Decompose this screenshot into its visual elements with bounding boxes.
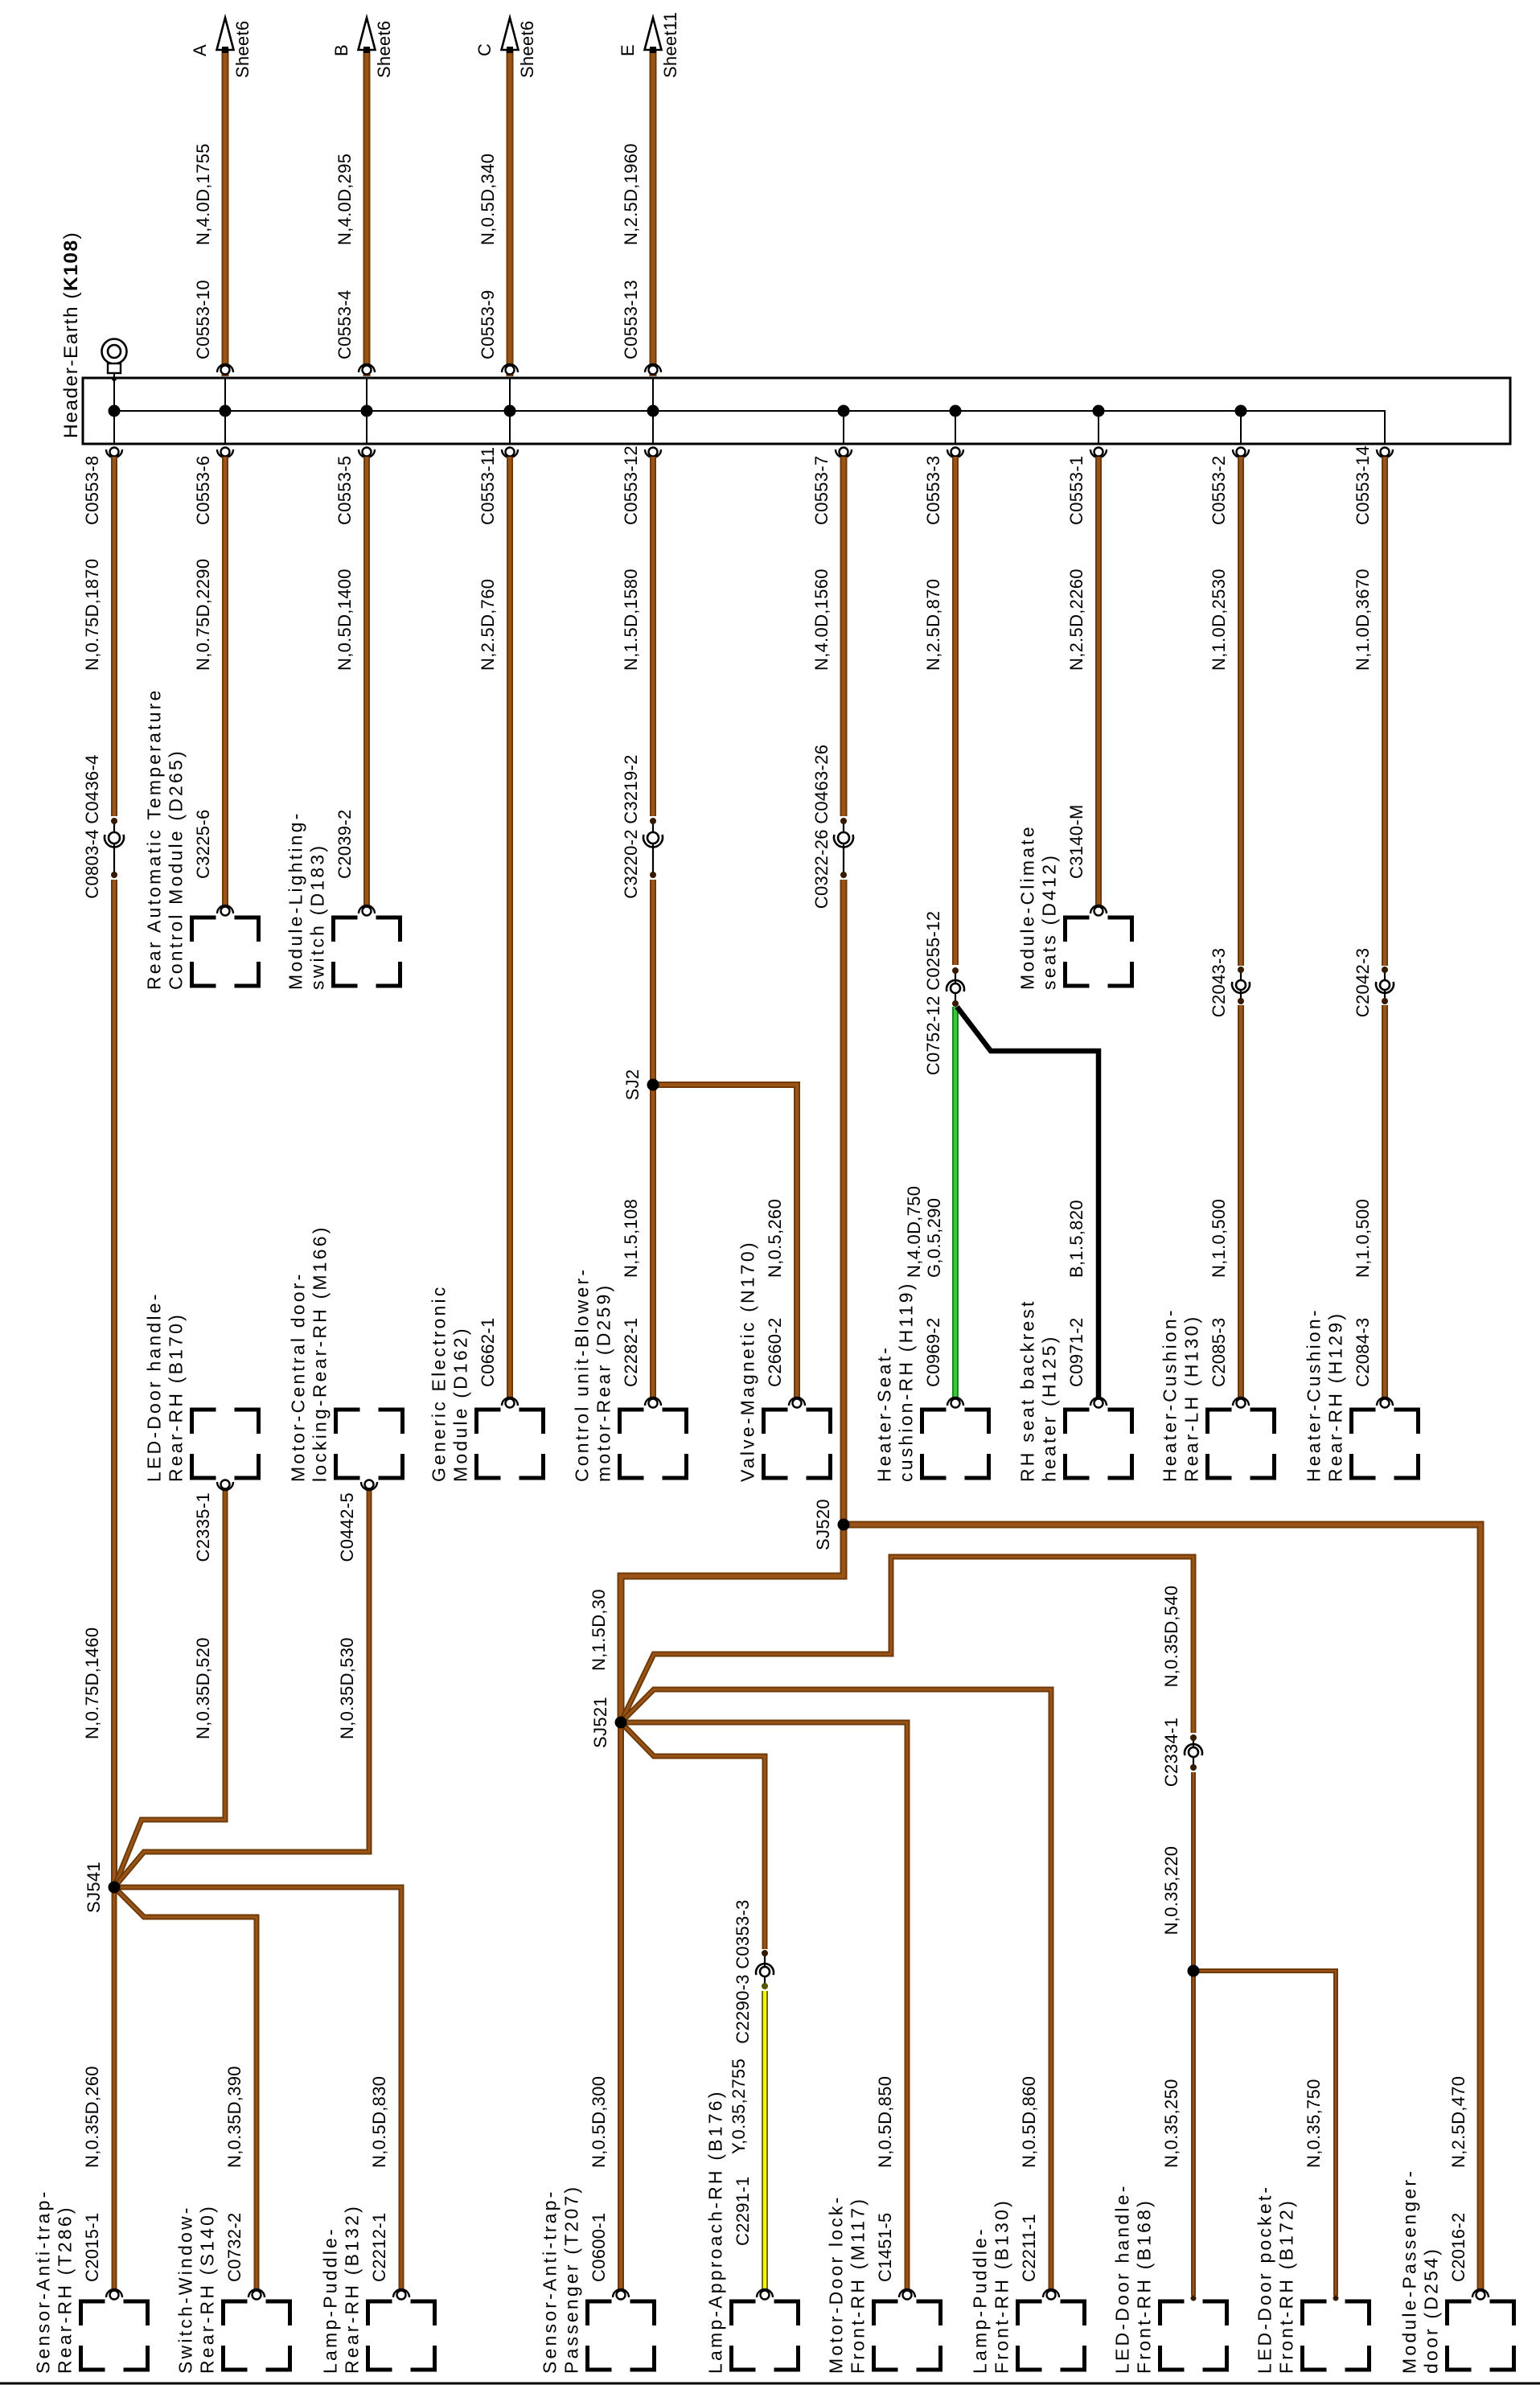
wire C0553-13 to off-sheet E bbox=[650, 50, 657, 376]
wire N,0.35D,520 SJ541 to B170 bbox=[114, 1489, 225, 1887]
svg-text:Y,0.35,2755: Y,0.35,2755 bbox=[729, 2059, 749, 2154]
wire N,0.35D,260 SJ541 to T286 bbox=[112, 1887, 117, 2291]
wire N,1.0,500 to H129 bbox=[1382, 1005, 1388, 1400]
connector C0662-1 bbox=[502, 1398, 518, 1408]
svg-text:C2043-3: C2043-3 bbox=[1209, 948, 1229, 1018]
component box D162 Generic Electronic Module bbox=[477, 1410, 544, 1478]
svg-text:C2015-1: C2015-1 bbox=[82, 2213, 102, 2283]
svg-text:E: E bbox=[618, 44, 638, 56]
svg-text:N,0.35D,260: N,0.35D,260 bbox=[82, 2066, 102, 2168]
connector C0553-2 at bus bottom bbox=[1233, 448, 1249, 458]
wire N,1.5,108 SJ2 to D259 bbox=[650, 1085, 656, 1400]
svg-text:C2282-1: C2282-1 bbox=[621, 1318, 641, 1388]
title D259 Control unit-Blower-motor-Rear bbox=[572, 1267, 614, 1482]
connector C2084-3 bbox=[1377, 1398, 1393, 1408]
svg-text:Rear Automatic Temperature: Rear Automatic Temperature bbox=[144, 688, 165, 990]
wire end dot at B172 bbox=[1333, 2296, 1339, 2301]
svg-text:C2660-2: C2660-2 bbox=[765, 1318, 785, 1388]
svg-text:N,1.5D,1580: N,1.5D,1580 bbox=[621, 569, 641, 671]
sheet border bottom bbox=[0, 2383, 1540, 2385]
svg-text:C2290-3 C0353-3: C2290-3 C0353-3 bbox=[733, 1899, 753, 2043]
connector C0553-6 at bus bottom bbox=[217, 448, 233, 458]
svg-text:N,0.5D,1400: N,0.5D,1400 bbox=[335, 569, 355, 671]
title T207 Sensor-Anti-trap-Passenger bbox=[540, 2185, 582, 2374]
wire N,0.75D,1460 segment to SJ541 bbox=[111, 880, 117, 1887]
component box T207 Sensor-Anti-trap-Passenger bbox=[588, 2301, 655, 2370]
svg-text:C0553-14: C0553-14 bbox=[1353, 445, 1373, 525]
svg-text:C0752-12 C0255-12: C0752-12 C0255-12 bbox=[923, 911, 943, 1075]
wire N,0.5D,830 SJ541 to B132 bbox=[114, 1887, 401, 2291]
svg-text:C0969-2: C0969-2 bbox=[923, 1318, 943, 1388]
component box D183 Module-Lighting-switch bbox=[334, 917, 400, 986]
title D254 Module-Passenger-door bbox=[1399, 2169, 1442, 2374]
component box M117 Motor-Door lock-Front-RH bbox=[874, 2301, 941, 2370]
svg-text:C3225-6: C3225-6 bbox=[193, 810, 213, 880]
svg-text:N,1.5D,30: N,1.5D,30 bbox=[589, 1589, 609, 1671]
svg-text:C0322-26 C0463-26: C0322-26 C0463-26 bbox=[811, 745, 832, 909]
inline connector C0752-12 C0255-12 bbox=[947, 967, 964, 1007]
svg-text:N,0.5D,340: N,0.5D,340 bbox=[478, 154, 498, 245]
wire C0553-2 upper segment bbox=[1238, 457, 1244, 966]
svg-text:N,2.5D,1960: N,2.5D,1960 bbox=[621, 143, 641, 245]
component box B130 Lamp-Puddle-Front-RH bbox=[1018, 2301, 1085, 2370]
svg-text:N,0.35D,540: N,0.35D,540 bbox=[1161, 1586, 1181, 1688]
svg-text:N,0.35,250: N,0.35,250 bbox=[1161, 2079, 1181, 2168]
svg-text:Lamp-Puddle-: Lamp-Puddle- bbox=[970, 2227, 991, 2374]
component box S140 Switch-Window-Rear-RH bbox=[224, 2301, 290, 2370]
svg-text:C2211-1: C2211-1 bbox=[1019, 2214, 1039, 2282]
svg-text:N,4.0D,1560: N,4.0D,1560 bbox=[811, 569, 832, 671]
svg-text:G,0.5,290: G,0.5,290 bbox=[924, 1198, 944, 1278]
svg-text:N,4.0D,1755: N,4.0D,1755 bbox=[193, 143, 213, 245]
junction SJ541 bbox=[109, 1882, 121, 1894]
connector C0553-5 at bus bottom bbox=[359, 448, 375, 458]
component box D412 Module-Climate seats bbox=[1066, 917, 1132, 986]
connector C2291-1 bbox=[757, 2289, 773, 2300]
svg-text:C3220-2 C3219-2: C3220-2 C3219-2 bbox=[621, 754, 641, 898]
inline connector C3220-2 C3219-2 bbox=[643, 818, 663, 878]
svg-text:Module-Climate: Module-Climate bbox=[1017, 824, 1038, 990]
svg-text:A: A bbox=[190, 44, 210, 56]
ground symbol on Header-Earth bbox=[102, 339, 127, 382]
connector C1451-5 bbox=[899, 2289, 915, 2300]
svg-text:Sensor-Anti-trap-: Sensor-Anti-trap- bbox=[33, 2189, 54, 2374]
connector C0969-2 bbox=[947, 1398, 963, 1408]
svg-text:LED-Door handle-: LED-Door handle- bbox=[144, 1291, 165, 1482]
svg-text:cushion-RH (H119): cushion-RH (H119) bbox=[896, 1281, 917, 1482]
svg-text:N,1.0D,3670: N,1.0D,3670 bbox=[1353, 569, 1373, 671]
connector C2335-1 bbox=[217, 1480, 233, 1491]
inline connector C0803-4 C0436-4 bbox=[105, 818, 124, 878]
connector C0553-13 at bus top bbox=[645, 364, 661, 375]
title B130 Lamp-Puddle-Front-RH bbox=[970, 2198, 1012, 2374]
svg-text:Rear-RH (S140): Rear-RH (S140) bbox=[197, 2204, 218, 2374]
wire end dot at B168 bbox=[1191, 2296, 1197, 2301]
svg-text:N,0.5D,830: N,0.5D,830 bbox=[369, 2076, 389, 2168]
wire N,0.35,220 C2334-1 to junction bbox=[1191, 1772, 1196, 1971]
svg-text:SJ520: SJ520 bbox=[813, 1499, 833, 1550]
connector C0442-5 bbox=[361, 1480, 377, 1491]
connector C0553-8 at bus bottom bbox=[106, 448, 122, 458]
svg-text:C0971-2: C0971-2 bbox=[1066, 1318, 1086, 1388]
title S140 Switch-Window-Rear-RH bbox=[175, 2204, 218, 2374]
wire C0553-12 upper segment bbox=[650, 457, 656, 816]
svg-text:C0553-4: C0553-4 bbox=[335, 290, 355, 360]
bus junction dots bbox=[109, 405, 1247, 417]
svg-text:N,0.5,260: N,0.5,260 bbox=[765, 1199, 785, 1278]
wire C0553-7 upper segment bbox=[840, 457, 848, 816]
svg-text:N,2.5D,760: N,2.5D,760 bbox=[478, 579, 498, 671]
wire N,0.5,260 SJ2 to N170 bbox=[653, 1085, 797, 1400]
svg-text:Rear-RH (H129): Rear-RH (H129) bbox=[1325, 1311, 1346, 1482]
svg-text:C1451-5: C1451-5 bbox=[875, 2213, 895, 2283]
connector C0553-14 at bus bottom bbox=[1377, 448, 1393, 458]
wire N,2.5D,470 SJ520 to D254 bbox=[844, 1525, 1480, 2291]
svg-text:C2334-1: C2334-1 bbox=[1161, 1718, 1181, 1788]
svg-text:C2016-2: C2016-2 bbox=[1448, 2213, 1468, 2283]
svg-text:C2042-3: C2042-3 bbox=[1353, 948, 1373, 1018]
component box D254 Module-Passenger-door bbox=[1448, 2301, 1514, 2370]
svg-text:N,0.35D,390: N,0.35D,390 bbox=[224, 2066, 244, 2168]
svg-text:N,1.5,108: N,1.5,108 bbox=[621, 1199, 641, 1278]
svg-text:C0553-9: C0553-9 bbox=[478, 290, 498, 360]
svg-text:Sheet6: Sheet6 bbox=[232, 20, 253, 78]
wire N,0.5D,300 SJ521 to T207 bbox=[618, 1722, 624, 2291]
title M166 Motor-Central door-locking-Rear-RH bbox=[288, 1225, 331, 1482]
component box D259 Control unit-Blower-motor-Rear bbox=[620, 1410, 687, 1478]
component box M166 Motor-Central door-locking-Rear-RH bbox=[336, 1410, 403, 1478]
title D265 Rear Automatic Temperature Control Module bbox=[144, 688, 187, 990]
wire C0553-12 lower segment to SJ2 bbox=[650, 880, 656, 1085]
svg-text:C0553-6: C0553-6 bbox=[193, 456, 213, 526]
title T286 Sensor-Anti-trap-Rear-RH bbox=[33, 2189, 76, 2374]
component box B132 Lamp-Puddle-Rear-RH bbox=[368, 2301, 435, 2370]
bus stub connections bbox=[114, 378, 1385, 444]
component box H129 Heater-Cushion-Rear-RH bbox=[1352, 1410, 1419, 1478]
svg-text:C2039-2: C2039-2 bbox=[335, 810, 355, 880]
svg-text:Front-RH (B130): Front-RH (B130) bbox=[992, 2198, 1012, 2374]
svg-text:N,0.35D,520: N,0.35D,520 bbox=[193, 1637, 213, 1739]
svg-text:N,0.75D,1460: N,0.75D,1460 bbox=[82, 1628, 102, 1739]
svg-text:seats (D412): seats (D412) bbox=[1039, 853, 1060, 990]
wire N,0.35D,540 SJ521 to C2334-1 bbox=[621, 1557, 1193, 1733]
wire N,1.5D,30 SJ520 to SJ521 bbox=[621, 1525, 844, 1722]
component box N170 Valve-Magnetic bbox=[764, 1410, 831, 1478]
svg-text:C0553-2: C0553-2 bbox=[1209, 456, 1229, 526]
connector C2660-2 bbox=[789, 1398, 805, 1408]
svg-text:N,4.0D,750: N,4.0D,750 bbox=[904, 1186, 924, 1278]
title B168 LED-Door handle-Front-RH bbox=[1112, 2183, 1155, 2374]
svg-text:N,0.35,750: N,0.35,750 bbox=[1304, 2079, 1324, 2168]
title M117 Motor-Door lock-Front-RH bbox=[826, 2195, 869, 2374]
wire C0553-1 to D412 bbox=[1095, 457, 1102, 907]
svg-text:N,0.5D,300: N,0.5D,300 bbox=[589, 2076, 609, 2168]
title N170 Valve-Magnetic bbox=[737, 1240, 758, 1482]
connector C2039-2 bbox=[359, 905, 375, 916]
svg-text:N,2.5D,2260: N,2.5D,2260 bbox=[1066, 569, 1086, 671]
svg-text:C0553-11: C0553-11 bbox=[478, 447, 498, 525]
title B170 LED-Door handle-Rear-RH bbox=[144, 1291, 187, 1482]
inline connector C0322-26 C0463-26 bbox=[834, 818, 853, 878]
junction SJ521 bbox=[615, 1717, 627, 1729]
component box B172 LED-Door pocket-Front-RH bbox=[1303, 2301, 1370, 2370]
svg-text:Heater-Seat-: Heater-Seat- bbox=[874, 1345, 895, 1482]
svg-text:switch (D183): switch (D183) bbox=[307, 844, 328, 990]
svg-text:C0553-5: C0553-5 bbox=[335, 456, 355, 526]
svg-text:C2084-3: C2084-3 bbox=[1353, 1318, 1373, 1388]
connector C0553-4 at bus top bbox=[359, 364, 375, 375]
junction SJ2 bbox=[647, 1079, 659, 1091]
connector C0553-10 at bus top bbox=[217, 364, 233, 375]
connector C2085-3 bbox=[1233, 1398, 1249, 1408]
svg-text:N,0.5D,860: N,0.5D,860 bbox=[1019, 2076, 1039, 2168]
off-sheet arrow C Sheet6 bbox=[474, 18, 537, 78]
title H119 Heater-Seat-cushion-RH bbox=[874, 1281, 917, 1482]
svg-text:C2212-1: C2212-1 bbox=[369, 2213, 389, 2283]
svg-text:Module-Passenger-: Module-Passenger- bbox=[1399, 2169, 1420, 2374]
wire C0553-7 lower segment to SJ520 bbox=[840, 880, 848, 1525]
title H129 Heater-Cushion-Rear-RH bbox=[1304, 1307, 1346, 1482]
wire C0553-3 to connector C0752-12 bbox=[952, 457, 959, 965]
svg-text:Module-Lighting-: Module-Lighting- bbox=[285, 811, 306, 990]
svg-text:Motor-Door lock-: Motor-Door lock- bbox=[826, 2195, 847, 2374]
svg-text:Front-RH (B168): Front-RH (B168) bbox=[1134, 2198, 1155, 2374]
inline connector C2290-3 C0353-3 bbox=[756, 1950, 774, 1989]
svg-text:C0553-3: C0553-3 bbox=[923, 456, 943, 526]
svg-text:Motor-Central door-: Motor-Central door- bbox=[288, 1272, 309, 1482]
svg-text:Rear-RH (B132): Rear-RH (B132) bbox=[342, 2204, 363, 2374]
svg-text:Sensor-Anti-trap-: Sensor-Anti-trap- bbox=[540, 2189, 561, 2374]
wire N,0.35,750 junction to B172 bbox=[1193, 1971, 1336, 2296]
svg-text:B,1.5,820: B,1.5,820 bbox=[1066, 1200, 1086, 1278]
connector C2282-1 bbox=[645, 1398, 661, 1408]
svg-text:C0553-8: C0553-8 bbox=[82, 456, 102, 526]
off-sheet arrow A Sheet6 bbox=[190, 18, 253, 78]
inline connector C2043-3 bbox=[1232, 967, 1250, 1004]
connector C2212-1 bbox=[393, 2289, 409, 2300]
connector C3140-M bbox=[1090, 905, 1107, 916]
title B172 LED-Door pocket-Front-RH bbox=[1255, 2185, 1297, 2374]
svg-text:Switch-Window-: Switch-Window- bbox=[175, 2205, 196, 2374]
svg-text:Front-RH (M117): Front-RH (M117) bbox=[848, 2197, 869, 2374]
svg-text:SJ2: SJ2 bbox=[622, 1069, 643, 1101]
connector C2016-2 bbox=[1472, 2289, 1489, 2300]
svg-text:Generic Electronic: Generic Electronic bbox=[429, 1284, 450, 1482]
title H130 Heater-Cushion-Rear-LH bbox=[1160, 1307, 1202, 1482]
svg-text:C3140-M: C3140-M bbox=[1066, 804, 1086, 879]
svg-text:C0442-5: C0442-5 bbox=[337, 1492, 357, 1562]
connector C0553-7 at bus bottom bbox=[836, 448, 852, 458]
title D412 Module-Climate seats bbox=[1017, 824, 1060, 990]
svg-text:locking-Rear-RH (M166): locking-Rear-RH (M166) bbox=[310, 1225, 331, 1482]
connector C0553-3 at bus bottom bbox=[947, 448, 963, 458]
wire N,0.35,250 junction to B168 bbox=[1191, 1971, 1196, 2296]
title B176 Lamp-Approach-RH bbox=[705, 2089, 726, 2374]
wire N,0.35D,530 SJ541 to M166 bbox=[114, 1489, 369, 1887]
svg-text:N,0.35,220: N,0.35,220 bbox=[1161, 1846, 1181, 1935]
svg-text:Passenger (T207): Passenger (T207) bbox=[561, 2185, 582, 2374]
svg-text:Header-Earth (K108): Header-Earth (K108) bbox=[60, 232, 82, 438]
connector C0600-1 bbox=[613, 2289, 629, 2300]
svg-text:Control Module (D265): Control Module (D265) bbox=[166, 749, 187, 990]
connector C0971-2 bbox=[1090, 1398, 1107, 1408]
svg-text:RH seat backrest: RH seat backrest bbox=[1017, 1299, 1038, 1482]
wire Y,0.35,2755 yellow to B176 bbox=[762, 1991, 768, 2293]
wire N,0.5D,850 SJ521 to M117 bbox=[621, 1722, 907, 2291]
wire C0553-5 to D183 bbox=[363, 457, 370, 907]
svg-text:Sheet6: Sheet6 bbox=[374, 20, 394, 78]
connector C0553-11 at bus bottom bbox=[502, 448, 518, 458]
connector C0553-1 at bus bottom bbox=[1090, 448, 1107, 458]
svg-text:N,2.5D,470: N,2.5D,470 bbox=[1448, 2076, 1468, 2168]
wire C0553-9 to off-sheet C bbox=[507, 50, 514, 376]
title H125 RH seat backrest heater bbox=[1017, 1299, 1060, 1482]
wire N,0.35D,390 SJ541 to S140 bbox=[114, 1887, 257, 2291]
svg-text:C0553-10: C0553-10 bbox=[193, 280, 213, 359]
svg-text:C0600-1: C0600-1 bbox=[589, 2213, 609, 2283]
off-sheet arrow E Sheet11 bbox=[618, 12, 680, 78]
junction SJ520 bbox=[838, 1519, 850, 1531]
component box H119 Heater-Seat-cushion-RH bbox=[922, 1410, 989, 1478]
bus internal earth rail bbox=[114, 411, 1385, 444]
svg-text:Control unit-Blower-: Control unit-Blower- bbox=[572, 1267, 593, 1482]
svg-text:C0803-4 C0436-4: C0803-4 C0436-4 bbox=[82, 754, 102, 898]
svg-text:N,0.75D,2290: N,0.75D,2290 bbox=[193, 559, 213, 671]
svg-text:Heater-Cushion-: Heater-Cushion- bbox=[1160, 1307, 1181, 1482]
wire C0553-14 upper segment bbox=[1382, 457, 1388, 966]
svg-text:heater (H125): heater (H125) bbox=[1039, 1334, 1060, 1482]
connector C3225-6 bbox=[217, 905, 233, 916]
svg-text:Sheet6: Sheet6 bbox=[517, 20, 537, 78]
connector C0553-9 at bus top bbox=[502, 364, 518, 375]
wire C0553-6 to D265 bbox=[222, 457, 228, 907]
component box B168 LED-Door handle-Front-RH bbox=[1160, 2301, 1227, 2370]
svg-text:Lamp-Puddle-: Lamp-Puddle- bbox=[320, 2227, 341, 2374]
svg-text:C0553-1: C0553-1 bbox=[1066, 456, 1086, 526]
wire N,1.0,500 to H130 bbox=[1238, 1005, 1244, 1400]
svg-text:SJ521: SJ521 bbox=[590, 1697, 610, 1748]
svg-text:N,0.35D,530: N,0.35D,530 bbox=[337, 1637, 357, 1739]
svg-text:Rear-RH (T286): Rear-RH (T286) bbox=[55, 2205, 76, 2374]
svg-text:SJ541: SJ541 bbox=[84, 1862, 104, 1913]
component box H125 RH seat backrest heater bbox=[1066, 1410, 1132, 1478]
component box B176 Lamp-Approach-RH bbox=[732, 2301, 799, 2370]
svg-text:C0553-13: C0553-13 bbox=[621, 280, 641, 359]
svg-text:motor-Rear (D259): motor-Rear (D259) bbox=[593, 1283, 614, 1482]
svg-text:Valve-Magnetic (N170): Valve-Magnetic (N170) bbox=[737, 1240, 758, 1482]
svg-text:door (D254): door (D254) bbox=[1421, 2247, 1442, 2374]
component box B170 LED-Door handle-Rear-RH bbox=[192, 1410, 259, 1478]
svg-text:Sheet11: Sheet11 bbox=[660, 12, 680, 78]
wire N,0.5D,320 SJ521 to C2290-3 bbox=[621, 1722, 765, 1949]
svg-text:Heater-Cushion-: Heater-Cushion- bbox=[1304, 1307, 1324, 1482]
connector C0553-12 at bus bottom bbox=[645, 448, 661, 458]
svg-text:N,1.0D,2530: N,1.0D,2530 bbox=[1209, 569, 1229, 671]
wire C0553-4 to off-sheet B bbox=[363, 50, 371, 376]
svg-text:N,1.0,500: N,1.0,500 bbox=[1353, 1199, 1373, 1278]
svg-text:C0662-1: C0662-1 bbox=[478, 1318, 498, 1388]
svg-text:LED-Door handle-: LED-Door handle- bbox=[1112, 2183, 1133, 2374]
wire C0553-11 to D162 bbox=[507, 457, 513, 1400]
svg-text:C: C bbox=[474, 43, 495, 56]
svg-text:LED-Door pocket-: LED-Door pocket- bbox=[1255, 2185, 1275, 2374]
svg-text:C2335-1: C2335-1 bbox=[193, 1492, 213, 1562]
wire G,0.5,290 green to H119 bbox=[952, 1007, 959, 1400]
wire N,0.5D,860 SJ521 to B130 bbox=[621, 1689, 1051, 2291]
svg-text:N,2.5D,870: N,2.5D,870 bbox=[923, 579, 943, 671]
svg-text:N,4.0D,295: N,4.0D,295 bbox=[335, 154, 355, 245]
svg-text:Front-RH (B172): Front-RH (B172) bbox=[1276, 2198, 1297, 2374]
wire C0553-8 upper segment bbox=[111, 457, 117, 816]
component box H130 Heater-Cushion-Rear-LH bbox=[1208, 1410, 1275, 1478]
svg-text:Rear-LH (H130): Rear-LH (H130) bbox=[1181, 1315, 1202, 1482]
svg-text:B: B bbox=[331, 44, 351, 56]
svg-text:N,1.0,500: N,1.0,500 bbox=[1209, 1199, 1229, 1278]
wire B,1.5,820 black to H125 bbox=[957, 1007, 1099, 1401]
title D162 Generic Electronic Module bbox=[429, 1284, 471, 1482]
svg-text:C0553-7: C0553-7 bbox=[811, 456, 832, 526]
junction node above B168 bbox=[1188, 1965, 1200, 1977]
svg-text:C2085-3: C2085-3 bbox=[1209, 1318, 1229, 1388]
component box T286 Sensor-Anti-trap-Rear-RH bbox=[81, 2301, 148, 2370]
svg-text:Rear-RH (B170): Rear-RH (B170) bbox=[166, 1312, 187, 1482]
svg-text:N,0.75D,1870: N,0.75D,1870 bbox=[82, 559, 102, 671]
svg-text:Module (D162): Module (D162) bbox=[450, 1326, 471, 1482]
connector C2211-1 bbox=[1043, 2289, 1059, 2300]
connector C0732-2 bbox=[248, 2289, 265, 2300]
wire C0553-10 to off-sheet A bbox=[222, 50, 229, 376]
title D183 Module-Lighting-switch bbox=[285, 811, 328, 990]
inline connector C2334-1 bbox=[1185, 1734, 1202, 1771]
connector C2015-1 bbox=[106, 2289, 122, 2300]
bus Header-Earth (K108) outline bbox=[83, 378, 1510, 444]
off-sheet arrow B Sheet6 bbox=[331, 18, 394, 78]
svg-text:C2291-1: C2291-1 bbox=[733, 2177, 753, 2247]
inline connector C2042-3 bbox=[1376, 967, 1394, 1004]
svg-text:C0553-12: C0553-12 bbox=[621, 445, 641, 525]
svg-text:C0732-2: C0732-2 bbox=[224, 2213, 244, 2283]
title B132 Lamp-Puddle-Rear-RH bbox=[320, 2204, 363, 2374]
svg-text:Lamp-Approach-RH (B176): Lamp-Approach-RH (B176) bbox=[705, 2089, 726, 2374]
component box D265 Rear Automatic Temperature Control Module bbox=[192, 917, 259, 986]
svg-text:N,0.5D,850: N,0.5D,850 bbox=[875, 2076, 895, 2168]
